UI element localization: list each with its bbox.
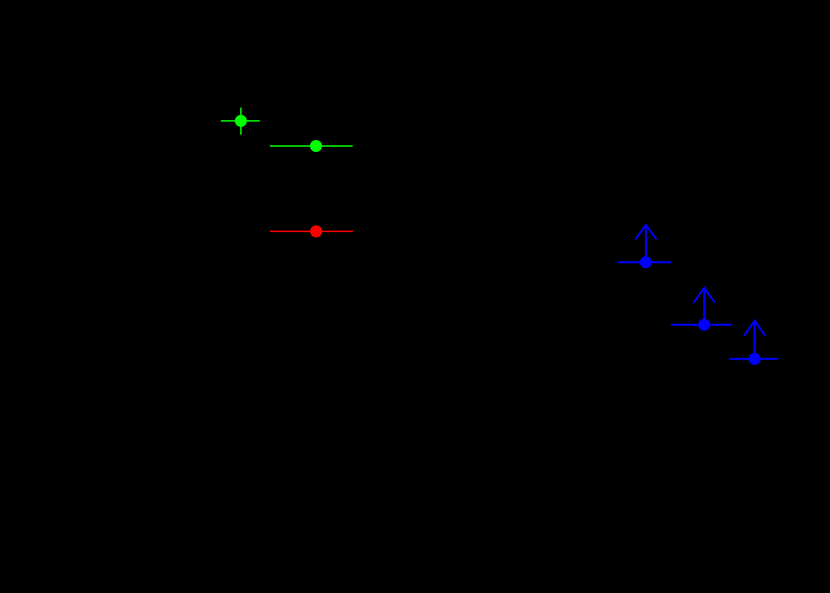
red data point P3 marker bbox=[310, 225, 322, 237]
green data point P2 marker bbox=[310, 140, 322, 152]
blue upper-limit point P6 arrow shaft bbox=[754, 321, 756, 359]
blue upper-limit point P6 marker bbox=[749, 353, 761, 365]
green data point P1 y-error bar bbox=[240, 108, 242, 135]
green data point P1 x-error bar bbox=[221, 120, 260, 122]
blue upper-limit point P5 x-error bar bbox=[671, 324, 732, 326]
blue upper-limit point P4 arrow shaft bbox=[645, 225, 647, 262]
blue upper-limit point P5 arrow head bbox=[694, 288, 715, 303]
blue upper-limit point P4 arrow head bbox=[635, 225, 656, 240]
blue upper-limit point P6 arrow head bbox=[744, 321, 765, 336]
blue upper-limit point P6 x-error bar bbox=[729, 358, 778, 360]
red data point P3 x-error bar bbox=[270, 230, 353, 232]
blue upper-limit point P4 marker bbox=[640, 256, 652, 268]
green data point P1 marker bbox=[235, 115, 247, 127]
blue upper-limit point P5 arrow shaft bbox=[703, 288, 705, 325]
blue upper-limit point P4 x-error bar bbox=[618, 261, 671, 263]
blue upper-limit point P5 marker bbox=[698, 319, 710, 331]
green data point P2 x-error bar bbox=[270, 145, 353, 147]
